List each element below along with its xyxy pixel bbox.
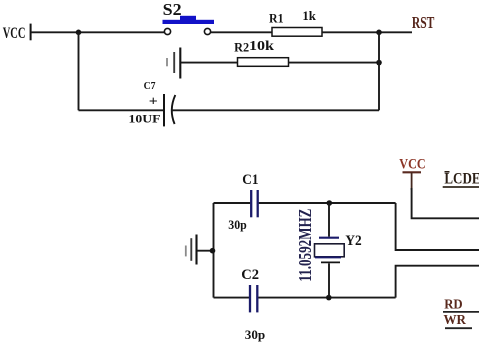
svg-text:RST: RST: [412, 13, 435, 32]
svg-text:30p: 30p: [245, 328, 265, 342]
wire R1 to RST: [322, 31, 412, 33]
power flag VCC (right): [399, 157, 425, 190]
wire ground to oscillator left vertical: [197, 250, 214, 252]
wire top rail to crystal: [328, 203, 330, 237]
wire RST rail down to C7 loop: [378, 32, 380, 110]
wire VCC to S2: [31, 31, 164, 33]
svg-text:11.0592MHZ: 11.0592MHZ: [295, 209, 315, 282]
wire oscillator bottom rail (right of C2): [258, 297, 395, 299]
svg-text:C1: C1: [242, 172, 258, 188]
wire VCC stem down and right: [412, 188, 479, 218]
switch S2: [163, 0, 215, 35]
power flag VCC (left): [3, 24, 31, 42]
wire top rail to XTAL pin (right): [396, 203, 479, 250]
wire S2 to R1: [211, 31, 272, 33]
svg-text:VCC: VCC: [3, 25, 26, 42]
resistor R2: [234, 38, 288, 66]
svg-text:+: +: [149, 94, 158, 109]
svg-text:1k: 1k: [302, 8, 316, 23]
wire R2 to RST rail: [289, 62, 380, 64]
node junction top rail / crystal: [327, 200, 333, 206]
wire ground to R2: [181, 62, 238, 64]
ground (top, at R2): [167, 48, 180, 79]
wire oscillator top rail (left of C1): [214, 202, 251, 204]
capacitor C7: [129, 80, 176, 126]
svg-text:Y2: Y2: [345, 233, 361, 249]
svg-text:10k: 10k: [249, 38, 275, 53]
svg-text:WR: WR: [444, 312, 467, 327]
svg-text:S2: S2: [163, 0, 182, 19]
net label LCDEN: [444, 170, 479, 187]
wire crystal to bottom rail: [328, 263, 330, 297]
svg-text:C2: C2: [241, 267, 259, 283]
capacitor C1: [228, 172, 258, 232]
wire junction down to C7 loop: [78, 32, 80, 110]
svg-text:VCC: VCC: [399, 157, 425, 173]
svg-text:R1: R1: [269, 10, 284, 25]
node junction bottom rail / crystal: [326, 295, 332, 301]
wire WR pin: [445, 327, 472, 329]
wire C7 right: [172, 109, 380, 111]
wire oscillator top rail (right of C1): [259, 202, 396, 204]
ground (bottom, oscillator): [186, 235, 197, 265]
node junction R2 / RST rail: [376, 60, 382, 66]
svg-text:30p: 30p: [228, 218, 247, 232]
svg-text:C7: C7: [144, 80, 156, 92]
svg-text:RD: RD: [444, 297, 463, 312]
wire oscillator left vertical: [213, 203, 215, 298]
wire oscillator bottom rail (left of C2): [214, 297, 250, 299]
svg-text:LCDEN: LCDEN: [444, 170, 479, 187]
node junction at VCC rail / C7 branch: [76, 30, 82, 36]
svg-text:10UF: 10UF: [129, 111, 161, 125]
wire RD pin: [443, 311, 479, 313]
svg-text:R2: R2: [234, 40, 249, 54]
capacitor C2: [241, 267, 265, 342]
node junction RST rail: [376, 30, 382, 36]
wire C7 left: [79, 109, 164, 111]
crystal Y2: [315, 233, 362, 262]
wire bottom rail to XTAL pin (right): [396, 266, 479, 298]
resistor R1: [269, 8, 322, 36]
wire LCDEN pin: [443, 186, 479, 188]
node junction ground / left vertical: [210, 248, 216, 254]
